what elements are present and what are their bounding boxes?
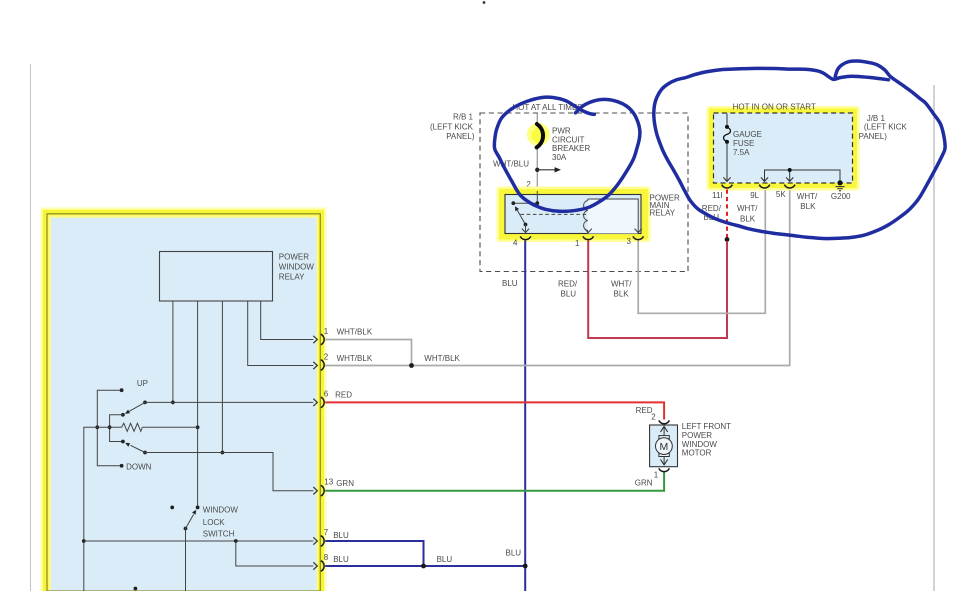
svg-text:BREAKER: BREAKER [552, 144, 590, 153]
window lock switch [170, 506, 199, 591]
svg-text:POWER: POWER [682, 431, 712, 440]
relay internal: pin2 lead and contacts [511, 191, 539, 205]
wire BLU terminal8 [325, 565, 525, 567]
asterisk mark top [483, 1, 486, 4]
svg-text:2: 2 [651, 413, 656, 422]
labels 11I 9L 5K G200 [712, 190, 851, 201]
page border line right [933, 85, 935, 591]
wire GRN terminal13 to motor [325, 472, 664, 491]
svg-text:WHT/BLK: WHT/BLK [424, 354, 460, 363]
wire BLU relay pin4 down [524, 241, 526, 591]
J/B1 internal ground bus [761, 168, 840, 181]
wire WHT/BLK terminal2 to 5K [325, 190, 790, 365]
labels BLU RED/BLU WHT/BLK below relay [502, 279, 632, 298]
svg-text:LEFT FRONT: LEFT FRONT [682, 422, 731, 431]
wire terminal7 line inside [84, 539, 314, 566]
label WINDOW LOCK SWITCH [203, 506, 239, 539]
wire BLU terminal7 [325, 541, 423, 566]
svg-text:BLU: BLU [333, 555, 349, 564]
svg-text:11I: 11I [712, 191, 723, 200]
label HOT IN ON OR START [733, 102, 816, 111]
svg-text:PANEL): PANEL) [446, 132, 475, 141]
label R/B 1 (LEFT KICK PANEL) [430, 113, 475, 141]
svg-text:WHT/: WHT/ [797, 192, 818, 201]
node junction RED/BLU [725, 237, 730, 242]
svg-text:GAUGE: GAUGE [733, 130, 762, 139]
relay internal: coil and frame to pin 3 [584, 199, 642, 234]
svg-text:BLK: BLK [800, 202, 816, 211]
svg-text:WHT/: WHT/ [737, 204, 758, 213]
wire WHT/BLK relay pin3 to 9L [638, 190, 765, 313]
power window relay box inside master switch [160, 252, 273, 302]
switch lower armature DOWN [121, 440, 147, 455]
label POWER MAIN RELAY [650, 193, 680, 217]
svg-text:7: 7 [324, 528, 329, 537]
svg-text:WINDOW: WINDOW [203, 506, 239, 515]
R/B 1 dashed junction box [480, 113, 688, 272]
label WHT/BLK under 9L [737, 204, 758, 224]
svg-text:M: M [660, 441, 669, 453]
ground G200 [836, 180, 845, 191]
svg-text:WINDOW: WINDOW [682, 440, 718, 449]
svg-text:1: 1 [654, 471, 659, 480]
power main relay highlighted box [497, 187, 651, 243]
svg-text:UP: UP [137, 379, 148, 388]
svg-text:13: 13 [324, 477, 333, 486]
gauge fuse 7.5A [723, 114, 730, 182]
svg-text:2: 2 [324, 352, 329, 361]
svg-text:7.5A: 7.5A [733, 148, 750, 157]
label DOWN [126, 462, 152, 471]
terminal arcs pins 4 1 3 [520, 236, 643, 239]
svg-text:6: 6 [324, 390, 329, 399]
switch UP contact bracket [95, 388, 123, 467]
label GAUGE FUSE 7.5A [733, 130, 762, 157]
label UP [137, 379, 148, 388]
terminal arrows at master switch edge [313, 336, 317, 570]
svg-text:BLU: BLU [437, 555, 453, 564]
svg-text:WHT/BLU: WHT/BLU [493, 160, 529, 169]
svg-text:(LEFT KICK: (LEFT KICK [864, 123, 908, 132]
pin labels 4 1 3 [513, 237, 632, 248]
svg-text:RED: RED [636, 406, 653, 415]
svg-text:R/B 1: R/B 1 [453, 113, 474, 122]
svg-text:4: 4 [513, 239, 518, 248]
svg-text:WHT/: WHT/ [611, 280, 632, 289]
svg-text:PWR: PWR [552, 127, 571, 136]
master switch highlighted box [41, 208, 327, 591]
label WHT/BLU [493, 160, 529, 169]
annotation scribble circle 1 [494, 97, 640, 211]
svg-text:PANEL): PANEL) [859, 132, 888, 141]
left front power window motor [650, 420, 678, 471]
wire left drop to terminal7 line [82, 427, 97, 591]
motor pin labels [635, 406, 659, 488]
svg-text:WHT/BLK: WHT/BLK [337, 327, 373, 336]
svg-text:HOT IN ON OR START: HOT IN ON OR START [733, 102, 816, 111]
svg-text:3: 3 [627, 237, 632, 246]
pin 2 label of power main relay [526, 180, 531, 189]
page border line left [30, 64, 32, 591]
svg-text:BLK: BLK [740, 214, 756, 223]
switch upper armature UP [121, 401, 147, 417]
wire RED terminal6 to motor [325, 402, 664, 419]
svg-text:BLU: BLU [502, 279, 518, 288]
label J/B 1 (LEFT KICK PANEL) [859, 114, 908, 141]
wire RED/BLU dashed from 11I [726, 190, 728, 239]
svg-text:BLU: BLU [506, 548, 522, 557]
wire RED/BLU relay pin1 to 11I [588, 241, 727, 339]
svg-text:WHT/BLK: WHT/BLK [337, 354, 373, 363]
label WHT/BLK under 5K [797, 192, 818, 211]
svg-text:1: 1 [324, 327, 329, 336]
svg-text:WINDOW: WINDOW [279, 263, 315, 272]
svg-text:RED: RED [335, 390, 352, 399]
label RED/BLU under 11I [702, 204, 722, 222]
svg-text:5K: 5K [776, 190, 786, 199]
node junction on WHT/BLU with arrow [535, 167, 561, 172]
circuit breaker PWR CIRCUIT BREAKER 30A [527, 123, 550, 147]
relay internal: switch armature to pin 4 [515, 206, 529, 232]
J/B 1 highlighted fuse box [707, 106, 860, 191]
svg-text:DOWN: DOWN [126, 462, 152, 471]
svg-text:FUSE: FUSE [733, 139, 754, 148]
label LEFT FRONT POWER WINDOW MOTOR [682, 422, 731, 457]
wire UP line to terminal6 [145, 401, 313, 403]
node junction BLU 2 [523, 564, 528, 569]
label POWER WINDOW RELAY [279, 253, 315, 282]
svg-text:SWITCH: SWITCH [203, 530, 235, 539]
node junction BLU 1 [421, 564, 426, 569]
svg-text:(LEFT KICK: (LEFT KICK [430, 122, 474, 131]
terminal arcs 11I 9L 5K [722, 185, 795, 188]
terminal labels and wire names [324, 327, 522, 564]
svg-text:J/B 1: J/B 1 [867, 114, 886, 123]
svg-text:9L: 9L [750, 191, 759, 200]
svg-text:RED/: RED/ [558, 280, 578, 289]
annotation scribble circle 2 [654, 61, 945, 239]
node junction WHT/BLK [409, 363, 414, 368]
terminal arcs at master switch edge [321, 334, 324, 571]
svg-text:BLK: BLK [614, 290, 630, 299]
svg-text:GRN: GRN [336, 479, 354, 488]
wire WHT/BLK terminal1 [325, 340, 411, 366]
svg-text:BLU: BLU [561, 290, 577, 299]
wire WHT/BLU [536, 113, 538, 187]
svg-text:8: 8 [324, 553, 329, 562]
svg-text:BLU: BLU [333, 531, 349, 540]
terminal arc pin 2 [532, 188, 543, 191]
svg-text:POWER: POWER [279, 253, 309, 262]
label HOT AT ALL TIMES [512, 103, 582, 112]
node junctions on relay leads [171, 401, 224, 455]
resistor [97, 423, 197, 431]
wire relay leads inside master switch [173, 301, 314, 507]
node dot bottom edge [134, 587, 138, 591]
svg-text:RELAY: RELAY [650, 208, 676, 217]
label PWR CIRCUIT BREAKER 30A [552, 127, 590, 162]
svg-text:RELAY: RELAY [279, 273, 305, 282]
wire DOWN line to terminal13 [145, 453, 313, 491]
svg-text:CIRCUIT: CIRCUIT [552, 135, 585, 144]
svg-text:GRN: GRN [635, 479, 653, 488]
svg-text:G200: G200 [831, 192, 851, 201]
svg-text:LOCK: LOCK [203, 518, 225, 527]
resistor bracket [108, 415, 123, 442]
svg-text:30A: 30A [552, 153, 567, 162]
svg-text:MOTOR: MOTOR [682, 449, 712, 458]
relay internal: mechanical link dashed [521, 213, 587, 215]
svg-text:1: 1 [575, 239, 580, 248]
